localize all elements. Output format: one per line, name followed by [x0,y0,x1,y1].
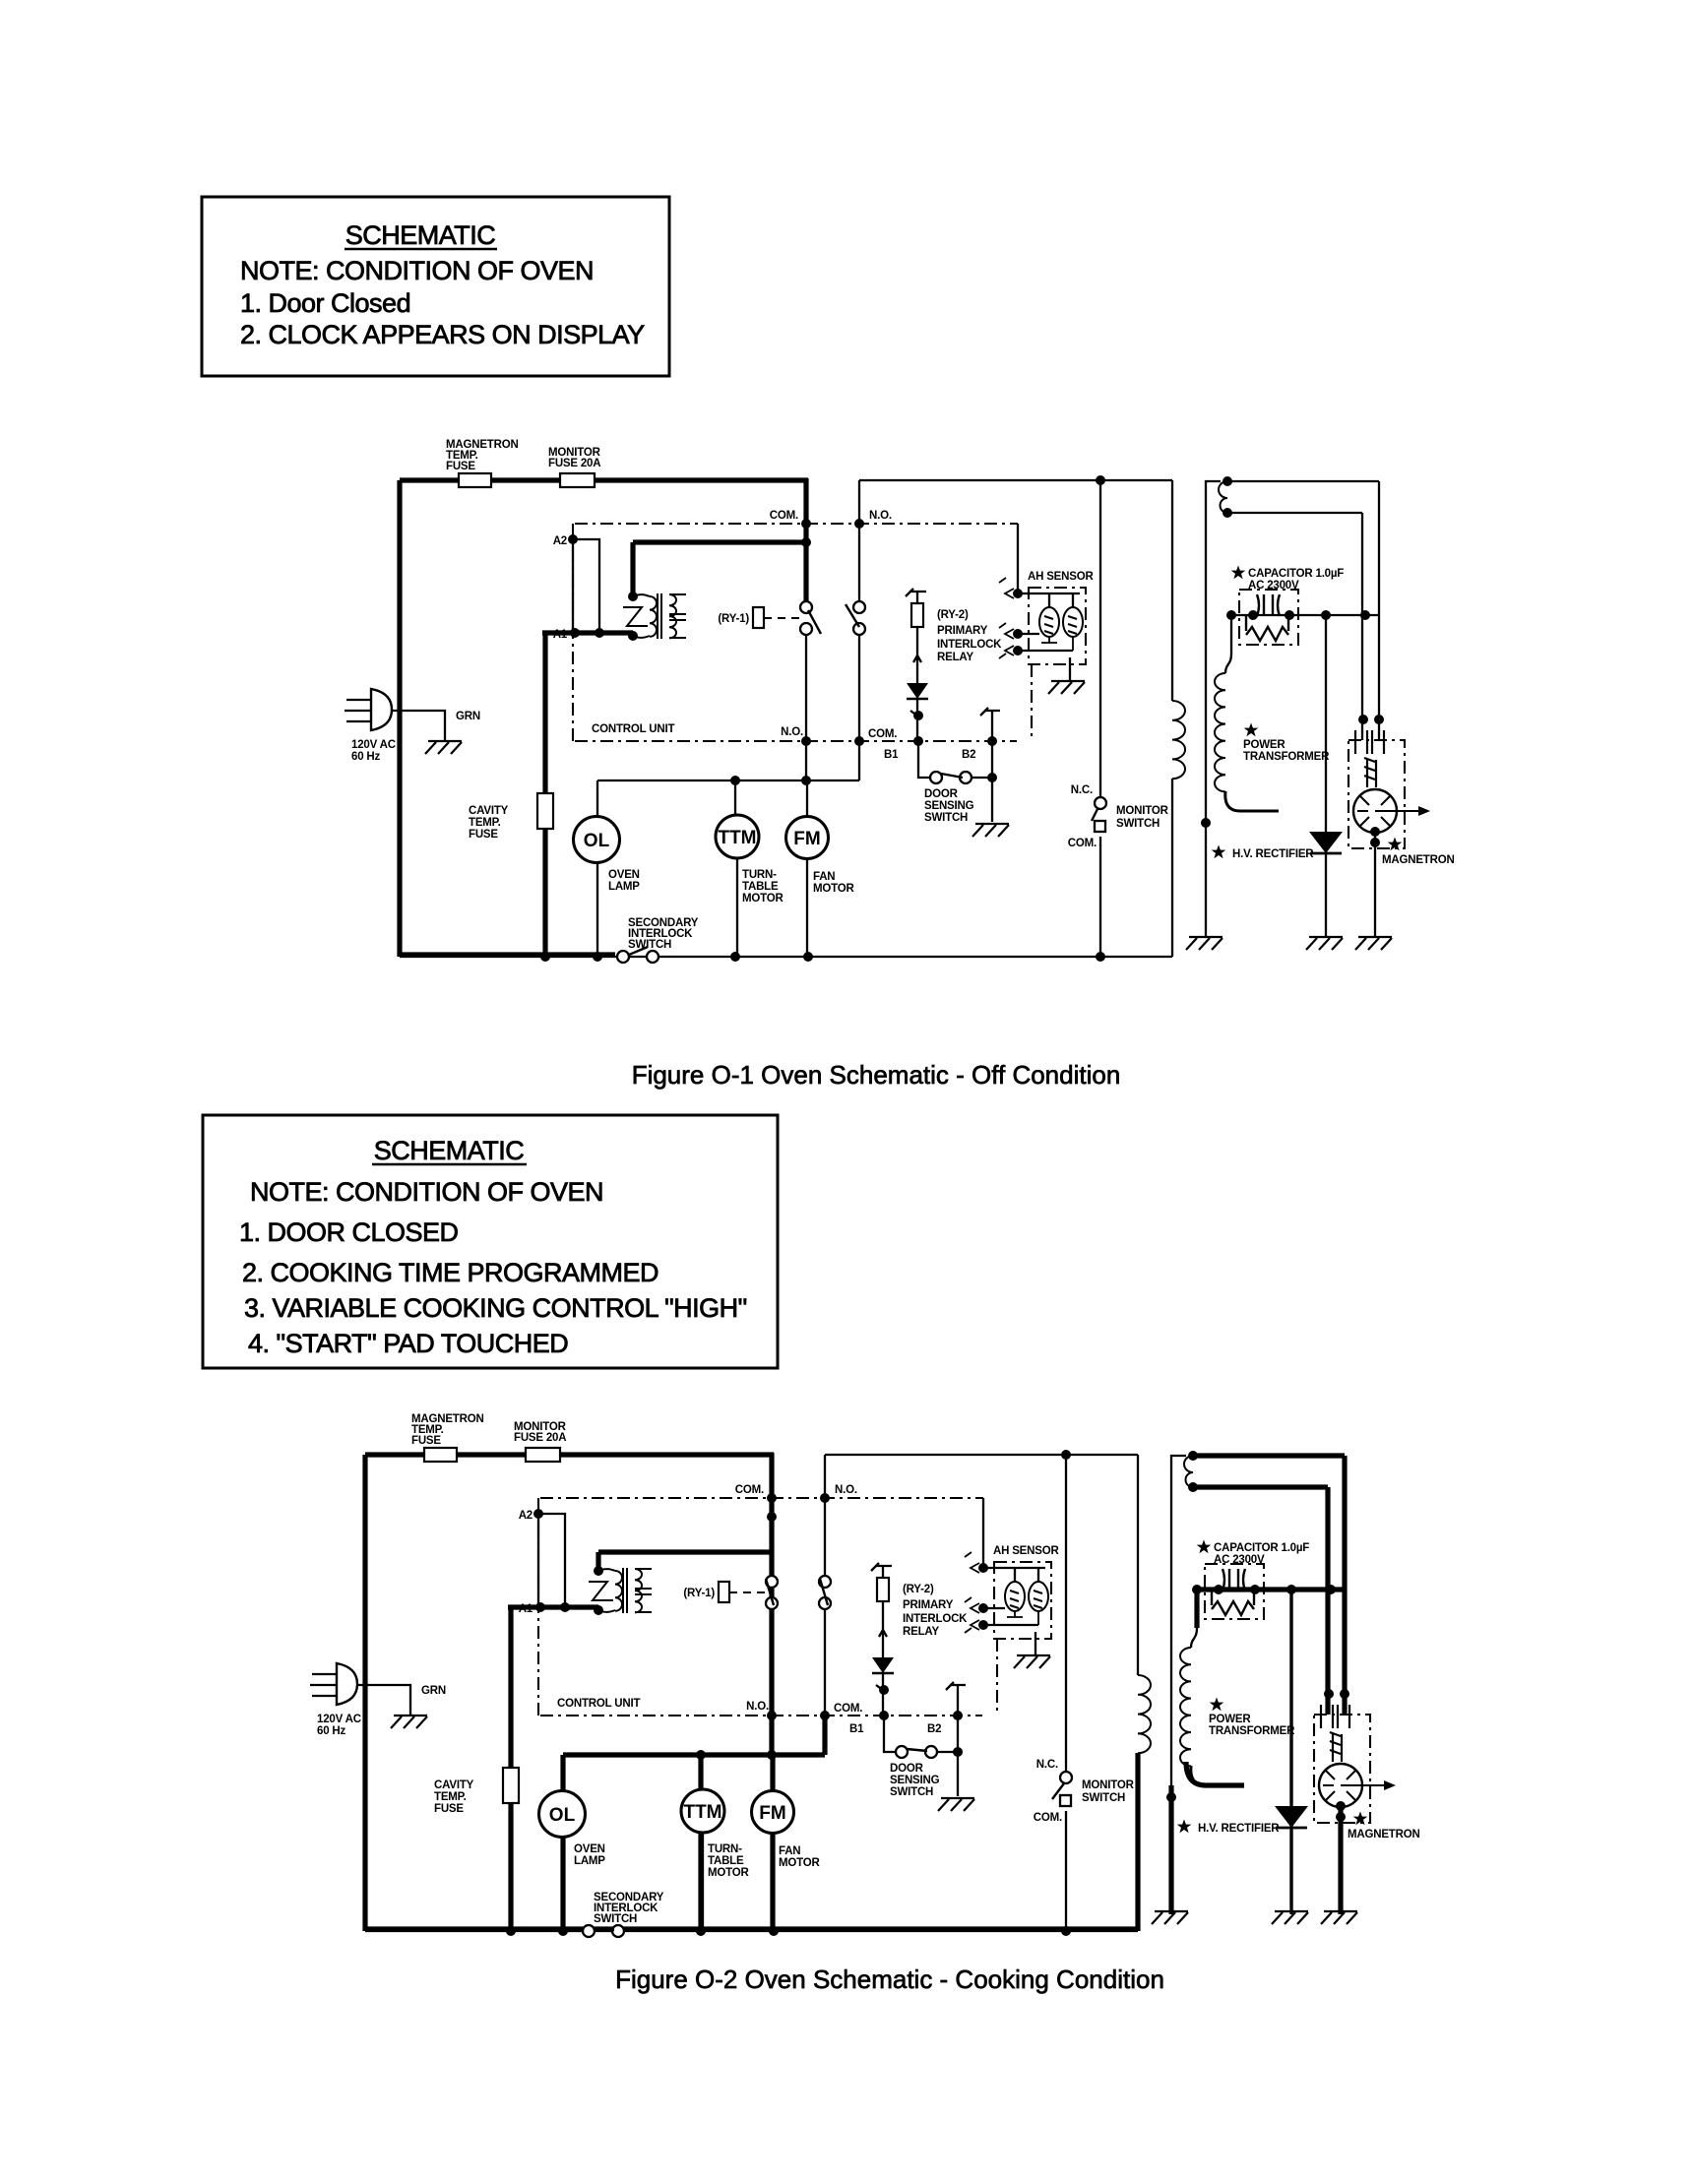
svg-text:3. VARIABLE COOKING CONTROL "H: 3. VARIABLE COOKING CONTROL "HIGH" [244,1293,747,1323]
svg-text:2. CLOCK APPEARS ON DISPLAY: 2. CLOCK APPEARS ON DISPLAY [240,320,645,349]
svg-text:4. "START" PAD TOUCHED: 4. "START" PAD TOUCHED [248,1329,568,1358]
svg-text:1. Door Closed: 1. Door Closed [240,288,410,318]
svg-text:SCHEMATIC: SCHEMATIC [374,1136,525,1165]
svg-text:SCHEMATIC: SCHEMATIC [345,220,496,250]
svg-text:Figure O-1 Oven Schematic - Of: Figure O-1 Oven Schematic - Off Conditio… [632,1060,1121,1090]
svg-text:1. DOOR CLOSED: 1. DOOR CLOSED [239,1217,459,1247]
svg-text:NOTE: CONDITION OF OVEN: NOTE: CONDITION OF OVEN [240,256,594,285]
svg-text:NOTE: CONDITION OF OVEN: NOTE: CONDITION OF OVEN [250,1177,603,1207]
svg-text:2. COOKING TIME PROGRAMMED: 2. COOKING TIME PROGRAMMED [242,1258,658,1287]
svg-text:Figure O-2 Oven Schematic - Co: Figure O-2 Oven Schematic - Cooking Cond… [615,1965,1164,1994]
